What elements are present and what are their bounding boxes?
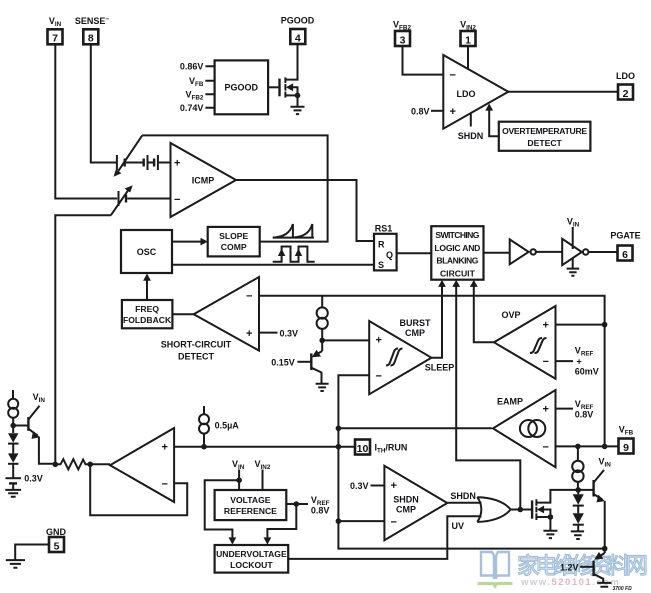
wire VIN2 into LDO [467, 46, 469, 70]
wire VIN into driver [572, 227, 574, 249]
ground driver [567, 269, 580, 276]
block SLOPE COMP [208, 227, 260, 257]
svg-text:60mV: 60mV [575, 367, 599, 377]
MOSFET M1 (run pulldown) [531, 500, 533, 518]
wire lower VIN rail with arrow into battery [55, 215, 111, 464]
svg-text:6: 6 [622, 249, 628, 261]
svg-text:9: 9 [623, 442, 629, 454]
wire SHDN CMP out to OR gate [447, 502, 481, 504]
wire VIN into voltage reference [238, 470, 240, 491]
pin 5 [49, 537, 64, 552]
node VIN tap [236, 477, 242, 483]
resistor [55, 459, 90, 469]
svg-text:SLEEP: SLEEP [425, 363, 455, 373]
svg-text:PGATE: PGATE [610, 231, 640, 241]
svg-text:CMP: CMP [396, 504, 416, 514]
current source 0.5uA [203, 406, 205, 414]
ground clamp [316, 384, 329, 391]
arrow variable (short-circuit foldback control) [111, 189, 129, 216]
svg-text:4: 4 [295, 32, 301, 44]
svg-text:BLANKING: BLANKING [436, 256, 478, 266]
svg-text:+: + [450, 106, 456, 118]
svg-text:SHDN: SHDN [458, 131, 484, 141]
svg-text:SHORT-CIRCUIT: SHORT-CIRCUIT [161, 339, 232, 349]
wire 0.3V to SC detect plus [259, 332, 278, 334]
node resistor right [87, 462, 93, 468]
svg-text:FREQ: FREQ [135, 304, 159, 314]
svg-text:OSC: OSC [137, 247, 157, 257]
svg-text:0.3V: 0.3V [350, 481, 369, 491]
op-amp LDO [443, 55, 508, 129]
svg-text:−: − [174, 194, 180, 206]
node left bias [10, 423, 16, 429]
svg-text:2: 2 [623, 88, 629, 100]
buffer U1 [510, 239, 529, 264]
pin 9 [619, 439, 634, 454]
ground 1.2V clamp [597, 583, 611, 587]
block VOLTAGE REFERENCE [215, 490, 287, 520]
battery 0.3V left [6, 477, 22, 479]
svg-text:+: + [376, 335, 382, 347]
svg-text:RS1: RS1 [375, 223, 393, 233]
wire OVP output up into switching logic (arrow) [474, 285, 494, 342]
wire VIN2 into voltage reference [262, 470, 264, 491]
node right bias top [575, 444, 581, 450]
svg-text:LOCKOUT: LOCKOUT [230, 560, 273, 570]
svg-text:SWITCHING: SWITCHING [435, 230, 479, 240]
wire OR out to MOSFET gate [511, 509, 531, 511]
wire RS1 Q to switching logic [397, 252, 432, 254]
svg-text:3: 3 [400, 34, 406, 46]
svg-text:5: 5 [54, 540, 60, 552]
block FREQ FOLDBACK [122, 300, 172, 328]
svg-text:+: + [162, 442, 168, 454]
inverter driver PGATE [562, 239, 582, 265]
latch RS1 [374, 234, 397, 271]
comparator SHORT-CIRCUIT DETECT [194, 277, 259, 351]
wire OR node up to switching logic (arrow) [456, 285, 520, 510]
wire SLEEP output up into switching logic [431, 285, 442, 358]
op-amp ICMP [171, 143, 237, 217]
svg-text:−: − [162, 479, 168, 491]
ground M2 [291, 107, 305, 114]
svg-text:0.15V: 0.15V [271, 357, 295, 367]
svg-text:UV: UV [452, 521, 465, 531]
svg-text:UNDERVOLTAGE: UNDERVOLTAGE [216, 549, 287, 559]
node EAMP out [336, 426, 342, 432]
block PGOOD [215, 60, 269, 114]
wire switching logic out [484, 252, 510, 254]
svg-text:FOLDBACK: FOLDBACK [123, 315, 172, 325]
waveform clock pulses [273, 247, 315, 262]
wire LDO SHDN stub [470, 113, 472, 126]
svg-text:0.86V: 0.86V [180, 62, 204, 72]
node 0.5uA [201, 444, 207, 450]
svg-text:LDO: LDO [457, 89, 476, 99]
svg-text:SHDN: SHDN [450, 491, 476, 501]
MOSFET M2 (PGOOD pulldown) [268, 86, 279, 88]
svg-text:0.8V: 0.8V [575, 410, 594, 420]
svg-text:0.8V: 0.8V [311, 505, 330, 515]
svg-text:OVERTEMPERATURE: OVERTEMPERATURE [502, 126, 587, 136]
wire VIN tap to UVL (arrow) [205, 480, 239, 541]
wire buffer to driver [536, 251, 562, 253]
svg-text:−: − [450, 70, 456, 82]
wire VREF output [286, 503, 308, 505]
wire OVP plus to VFB rail [556, 324, 605, 326]
wire ICMP minus row from battery to ICMP [127, 198, 170, 200]
node VFB pin junction [602, 444, 608, 450]
svg-text:+: + [246, 328, 252, 340]
svg-text:0.74V: 0.74V [180, 103, 204, 113]
ground GND pin [6, 560, 25, 568]
svg-text:8: 8 [88, 33, 94, 45]
svg-text:PGOOD: PGOOD [281, 16, 315, 26]
wire OSC clock to RS1 S input [172, 264, 374, 266]
oscillator OSC [121, 230, 172, 273]
svg-text:7: 7 [52, 33, 58, 45]
pin 1 [461, 31, 476, 46]
svg-text:+: + [577, 356, 582, 366]
node ITH pin [336, 444, 342, 450]
svg-text:−: − [376, 371, 382, 383]
svg-text:0.8V: 0.8V [411, 106, 430, 116]
wire driver ground stub [572, 259, 574, 269]
svg-text:1.2V: 1.2V [560, 562, 579, 572]
transistor Q left (NPN VIN) [13, 425, 28, 427]
svg-text:LOGIC AND: LOGIC AND [434, 243, 480, 253]
node VFB-OVP junction [602, 322, 608, 328]
watermark book icon [481, 552, 509, 579]
svg-text:CMP: CMP [405, 328, 425, 338]
ground MOSFET [543, 531, 557, 538]
node ITH clamp [602, 546, 608, 552]
svg-text:SHDN: SHDN [393, 495, 419, 505]
svg-text:Q: Q [386, 250, 393, 260]
wire EAMP plus to VREF 0.8V [556, 408, 574, 410]
gate OR [477, 497, 510, 522]
wire BURST minus to ITH rail / rail down to 1.2V clamp [338, 375, 604, 548]
wire PGOOD inputs [205, 66, 214, 108]
svg-text:EAMP: EAMP [497, 397, 523, 407]
svg-text:R: R [378, 239, 385, 249]
svg-text:−: − [246, 291, 252, 303]
wire GND pin to ground [15, 545, 49, 560]
node SHDN CMP minus [336, 518, 342, 524]
svg-text:REFERENCE: REFERENCE [224, 506, 277, 516]
wire LDO output to pin 2 [508, 91, 618, 93]
current source left bias [12, 390, 14, 399]
pin 3 [395, 31, 410, 46]
diode D2 left [8, 453, 19, 462]
wire VFB rail [259, 296, 619, 447]
svg-text:OVP: OVP [501, 310, 520, 320]
block SWITCHING LOGIC AND BLANKING CIRCUIT [431, 226, 483, 280]
svg-text:CIRCUIT: CIRCUIT [440, 268, 476, 278]
block OVERTEMPERATURE DETECT [499, 122, 591, 151]
transistor Q right (NPN VIN) [578, 489, 593, 491]
svg-text:3700 FD: 3700 FD [613, 586, 633, 592]
pin 6 [618, 246, 633, 261]
wire VIN pin7 down to ICMP minus row [55, 44, 117, 198]
node right bias bottom [575, 487, 581, 493]
svg-text:+: + [174, 158, 180, 170]
wire VREF to UVL (arrow) [267, 504, 296, 541]
node MOSFET source [548, 514, 554, 520]
svg-text:0.3V: 0.3V [280, 328, 299, 338]
arrow slope comp into ICMP offset [118, 135, 143, 172]
wire OVP minus to VREF+60mV [556, 360, 574, 362]
wire 0.3V to SHDN CMP plus [371, 485, 385, 487]
pin 10 [355, 440, 370, 455]
wire buffer output [90, 463, 110, 465]
svg-text:0.5µA: 0.5µA [215, 420, 240, 430]
svg-text:LDO: LDO [616, 71, 635, 81]
svg-text:DETECT: DETECT [178, 351, 215, 361]
node resistor left [53, 462, 59, 468]
pin 2 [618, 85, 633, 100]
pin 4 [290, 29, 305, 44]
ground left column [5, 490, 21, 497]
wire OSC to slope comp (arrow) [172, 241, 205, 243]
wire EAMP output [338, 427, 492, 429]
svg-text:BURST: BURST [400, 318, 432, 328]
block UNDERVOLTAGE LOCKOUT [215, 545, 289, 573]
wire short-circuit detect out to freq foldback [172, 313, 193, 315]
wire VFB2 to LDO minus [403, 46, 444, 75]
svg-text:+: + [543, 320, 549, 332]
pin 7 [48, 29, 63, 44]
wire driver to PGATE pin [588, 251, 617, 253]
node OR out [518, 507, 524, 513]
battery offset ICMP minus input [118, 191, 120, 206]
wire ITH row [174, 446, 355, 448]
node M2 source [295, 93, 301, 99]
svg-text:10: 10 [357, 443, 369, 455]
diode D4 right [573, 513, 584, 524]
svg-text:−: − [543, 441, 549, 453]
svg-text:SENSE−: SENSE− [75, 16, 110, 26]
comparator SHDN CMP [384, 466, 447, 540]
node burst clamp [319, 338, 325, 344]
svg-text:S: S [378, 260, 384, 270]
current source burst clamp [321, 296, 323, 308]
comparator BURST CMP [369, 321, 431, 394]
wire FREQ FOLDBACK to OSC (arrow) [146, 277, 148, 300]
wire overtemp to LDO shutdown (arrow) [489, 108, 499, 136]
wire slope comp rail over ICMP [142, 135, 327, 241]
comparator OVP [494, 306, 556, 379]
pin 8 [83, 29, 98, 44]
waveform sawtooth [273, 224, 314, 238]
svg-text:0.3V: 0.3V [24, 473, 43, 483]
svg-text:VOLTAGE: VOLTAGE [230, 495, 271, 505]
svg-text:PGOOD: PGOOD [225, 83, 259, 93]
svg-text:−: − [391, 516, 397, 528]
wire SENSE pin8 down to ICMP plus row [91, 44, 116, 162]
svg-text:1: 1 [465, 34, 471, 46]
battery offsets ICMP plus input [116, 155, 118, 170]
diode D1 left [8, 433, 19, 442]
current source right bias [577, 446, 579, 461]
wire buffer feedback loop [90, 464, 187, 515]
node VREF [294, 501, 300, 507]
diode D3 right [577, 490, 579, 494]
wire clamp node to BURST CMP plus [322, 339, 369, 341]
wire ITH rail to SHDN CMP minus [338, 520, 384, 522]
transistor Q clamp 1.2V (PNP) [604, 549, 606, 553]
wire ICMP output to RS1 R input [236, 180, 374, 241]
svg-text:DETECT: DETECT [527, 138, 562, 148]
svg-text:+: + [543, 404, 549, 416]
svg-text:SLOPE: SLOPE [219, 231, 248, 241]
transistor Q clamp (PNP 0.15V) [321, 340, 323, 351]
svg-text:+: + [391, 480, 397, 492]
op-amp buffer (ITH clamp) [110, 428, 174, 502]
wire 0.8V to LDO plus [431, 110, 443, 112]
svg-text:−: − [543, 356, 549, 368]
svg-text:COMP: COMP [221, 242, 247, 252]
op-amp EAMP [493, 390, 556, 467]
wire UVL output to OR gate UV input [288, 516, 481, 559]
ground diode string [571, 531, 584, 539]
svg-text:ICMP: ICMP [192, 176, 215, 186]
